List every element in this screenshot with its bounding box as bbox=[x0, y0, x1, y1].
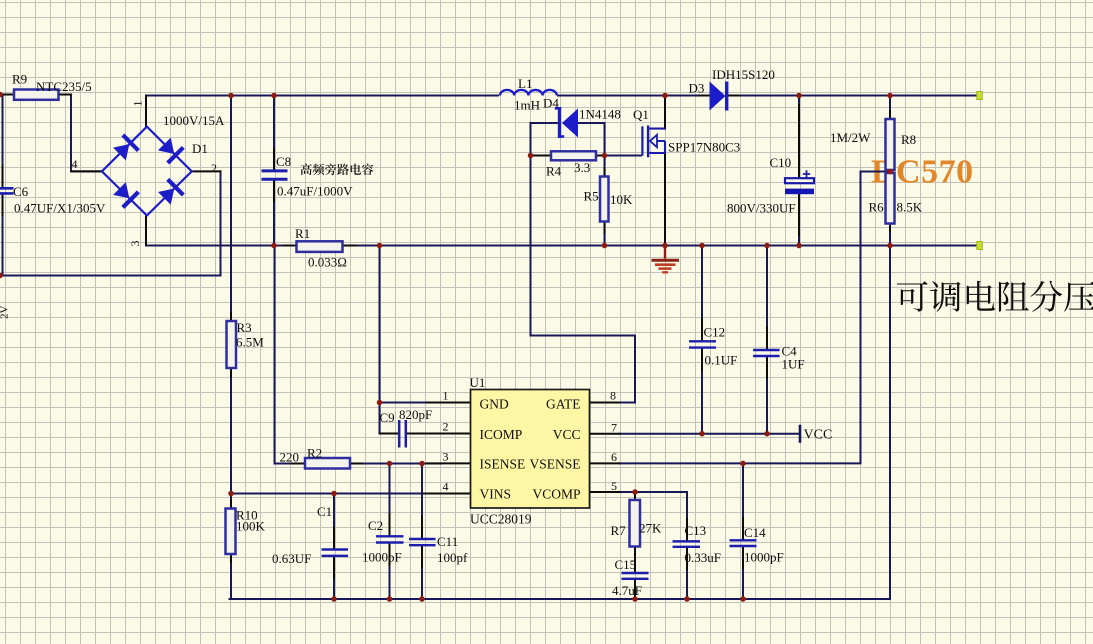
svg-text:IDH15S120: IDH15S120 bbox=[712, 67, 775, 82]
svg-text:100K: 100K bbox=[236, 519, 266, 534]
bridge diode top-left bbox=[113, 135, 138, 160]
wire R8 top feed bbox=[889, 96, 891, 120]
svg-text:R2: R2 bbox=[307, 446, 322, 461]
svg-text:NTC235/5: NTC235/5 bbox=[36, 79, 92, 94]
svg-text:VCOMP: VCOMP bbox=[532, 486, 580, 501]
svg-text:D4: D4 bbox=[543, 96, 559, 111]
svg-text:VCC: VCC bbox=[804, 428, 833, 443]
capacitor pin stubs (black) bbox=[273, 149, 275, 171]
svg-text:8.5K: 8.5K bbox=[897, 200, 923, 215]
svg-text:R7: R7 bbox=[611, 523, 627, 538]
svg-text:1UF: 1UF bbox=[782, 357, 805, 372]
svg-text:GND: GND bbox=[480, 397, 509, 412]
resistor R2 pins bbox=[292, 463, 305, 465]
wire AC live drop to C6 top bbox=[2, 95, 4, 189]
svg-text:ICOMP: ICOMP bbox=[480, 427, 523, 442]
svg-text:800V/330UF: 800V/330UF bbox=[727, 201, 796, 216]
svg-text:3: 3 bbox=[128, 241, 142, 247]
wire D4 cathode loop and gate drive to pin 8 bbox=[531, 123, 636, 403]
bridge pin 3 bbox=[145, 216, 147, 246]
diode D3 IDH15S120 bbox=[710, 82, 729, 111]
wire pin1 GND net bbox=[380, 402, 442, 404]
svg-text:3.3: 3.3 bbox=[574, 160, 590, 175]
svg-text:D1: D1 bbox=[192, 141, 208, 156]
svg-text:0.63UF: 0.63UF bbox=[272, 551, 311, 566]
svg-text:C15: C15 bbox=[615, 557, 637, 572]
resistor R3 6.5M bbox=[227, 321, 237, 368]
svg-text:1: 1 bbox=[131, 101, 145, 107]
svg-text:ISENSE: ISENSE bbox=[480, 457, 526, 472]
wire C6 bottom to neutral return bbox=[2, 194, 4, 276]
wire top rail segment right (D3 to output port) bbox=[727, 95, 977, 97]
C9 pin stubs bbox=[380, 433, 398, 435]
resistor R9 (NTC235/5) bbox=[14, 90, 59, 100]
wire C4 branch bbox=[766, 246, 768, 349]
svg-text:VSENSE: VSENSE bbox=[529, 457, 580, 472]
svg-text:0.033Ω: 0.033Ω bbox=[308, 255, 347, 270]
bridge pin 1 bbox=[145, 96, 147, 127]
resistor R9 pins bbox=[0, 94, 14, 96]
note text (HF bypass capacitor) bbox=[301, 164, 374, 176]
wire C11 branch bbox=[421, 464, 423, 538]
svg-text:Q1: Q1 bbox=[633, 107, 649, 122]
capacitor C8 0.47uF/1000V bbox=[262, 171, 288, 179]
wire R3 bottom to VINS node bbox=[230, 368, 232, 494]
wire C13 bottom bbox=[686, 548, 688, 599]
svg-text:1: 1 bbox=[443, 389, 449, 403]
diode D3 pin stubs (black) bbox=[699, 95, 710, 97]
Q1 source lead black to ground rail bbox=[664, 153, 666, 246]
wire D4 anode to R4 right node bbox=[578, 123, 605, 156]
wire rail2 down to R2 (ISENSE feed) bbox=[275, 246, 297, 464]
wire C14 branch bbox=[742, 463, 744, 538]
inductor L1 1mH bbox=[500, 90, 557, 96]
wire R1 right branch down to GND pin / ICOMP bbox=[379, 246, 381, 434]
svg-text:0.47uF/1000V: 0.47uF/1000V bbox=[277, 184, 353, 199]
svg-text:2: 2 bbox=[443, 420, 449, 434]
wire R7 bottom to C15 bbox=[634, 547, 636, 572]
wire VCC rail from pin 7 bbox=[620, 433, 801, 435]
resistor R10 100K bbox=[226, 509, 236, 555]
svg-text:R3: R3 bbox=[237, 320, 252, 335]
capacitor C6 0.47UF/X1/305V (clipped at left edge) bbox=[0, 188, 14, 193]
wire rail2 left (bridge pin3 to R1) bbox=[146, 245, 297, 247]
resistor R6 8.5K bbox=[886, 173, 895, 224]
svg-text:27K: 27K bbox=[639, 521, 662, 536]
ground symbol (power earth) bbox=[652, 246, 680, 273]
svg-text:R6: R6 bbox=[869, 200, 885, 215]
svg-text:7: 7 bbox=[611, 421, 617, 435]
wire R10 branch bbox=[230, 494, 232, 509]
svg-text:1000pF: 1000pF bbox=[744, 550, 784, 565]
svg-text:R4: R4 bbox=[546, 164, 562, 179]
svg-text:1000pF: 1000pF bbox=[362, 550, 402, 565]
resistor R4 pins bbox=[531, 155, 552, 157]
wire C15 bottom bbox=[634, 580, 636, 599]
svg-text:VINS: VINS bbox=[480, 486, 512, 501]
capacitor C4 1UF bbox=[753, 350, 780, 356]
capacitor C15 4.7uF bbox=[622, 573, 649, 579]
resistor R5 10K bbox=[600, 177, 609, 222]
svg-text:0.47UF/X1/305V: 0.47UF/X1/305V bbox=[14, 201, 106, 216]
wire VCOMP pin 5 net bbox=[620, 492, 688, 540]
resistor R2 220 bbox=[305, 458, 350, 469]
svg-text:R1: R1 bbox=[295, 226, 310, 241]
svg-text:100pf: 100pf bbox=[437, 550, 468, 565]
bridge pin 2 bbox=[192, 170, 221, 172]
capacitor C10 800V/330UF electrolytic bbox=[785, 170, 814, 194]
resistor vertical pin stubs (black) bbox=[230, 313, 232, 321]
svg-text:1000V/15A: 1000V/15A bbox=[163, 113, 225, 128]
wire top rail segment middle (L1 to D3) bbox=[558, 95, 710, 97]
capacitor C12 0.1UF bbox=[689, 341, 716, 347]
wire R4 node to R5 top bbox=[604, 156, 606, 177]
svg-text:2: 2 bbox=[211, 161, 217, 175]
svg-text:10K: 10K bbox=[610, 192, 633, 207]
bridge rectifier D1 diamond bbox=[102, 127, 192, 216]
wire C2 branch bbox=[389, 464, 391, 535]
capacitor C1 0.63UF bbox=[322, 550, 349, 556]
capacitor C11 100pf bbox=[409, 539, 436, 545]
wire top rail segment left (bridge pin1 to L1) bbox=[146, 95, 498, 97]
wire R7 branch from pin5 net bbox=[634, 492, 636, 500]
note text (adjustable resistor divider) bbox=[897, 281, 1093, 312]
svg-text:6.5M: 6.5M bbox=[236, 335, 264, 350]
svg-text:220: 220 bbox=[280, 450, 300, 465]
svg-text:R8: R8 bbox=[901, 132, 916, 147]
VCC net tick bbox=[799, 426, 802, 442]
svg-text:R5: R5 bbox=[584, 189, 599, 204]
bridge diode bottom-right bbox=[158, 179, 183, 204]
svg-text:D3: D3 bbox=[689, 81, 705, 96]
svg-text:R9: R9 bbox=[12, 72, 27, 87]
svg-text:C8: C8 bbox=[276, 154, 291, 169]
wire R2 right to ISENSE pin 3 bbox=[350, 463, 441, 465]
svg-text:C11: C11 bbox=[437, 534, 458, 549]
bridge pin 4 bbox=[72, 170, 102, 172]
wire C10 branch bbox=[798, 96, 800, 179]
Q1 drain lead black bbox=[664, 96, 666, 129]
capacitor C2 1000pF bbox=[376, 536, 404, 542]
op-amp U1 UCC28019 PFC controller IC body bbox=[471, 390, 590, 509]
svg-text:C14: C14 bbox=[744, 525, 766, 540]
resistor R1 pins bbox=[284, 245, 297, 247]
svg-text:4: 4 bbox=[443, 480, 449, 494]
svg-text:C10: C10 bbox=[770, 155, 792, 170]
svg-text:2V: 2V bbox=[0, 306, 11, 320]
svg-text:VCC: VCC bbox=[553, 427, 581, 442]
svg-text:4.7uF: 4.7uF bbox=[612, 583, 642, 598]
resistor R4 3.3 bbox=[551, 151, 596, 160]
wire rail2 right (R1 to lower port) bbox=[343, 245, 978, 247]
wire divider tap to VSENSE (pin 6) bbox=[620, 172, 891, 464]
wire VINS pin 4 net bbox=[231, 493, 441, 495]
svg-text:5: 5 bbox=[611, 479, 617, 493]
capacitor C14 1000pF bbox=[730, 540, 757, 546]
svg-text:GATE: GATE bbox=[546, 397, 581, 412]
svg-text:C13: C13 bbox=[685, 523, 707, 538]
svg-text:C2: C2 bbox=[368, 518, 383, 533]
svg-text:UCC28019: UCC28019 bbox=[470, 512, 532, 527]
svg-text:C9: C9 bbox=[380, 410, 395, 425]
resistor R1 0.033ohm bbox=[297, 241, 343, 252]
bridge diode top-right bbox=[158, 138, 183, 163]
wire C8 branch bbox=[273, 96, 275, 170]
wire gate node to Q1 gate bbox=[605, 155, 642, 157]
svg-text:L1: L1 bbox=[518, 76, 532, 91]
svg-text:U1: U1 bbox=[470, 375, 486, 390]
svg-text:0.1UF: 0.1UF bbox=[705, 353, 738, 368]
svg-text:4: 4 bbox=[72, 157, 78, 171]
wire C1 branch bbox=[333, 494, 335, 549]
bridge diode bottom-left bbox=[113, 182, 138, 207]
transistor Q1 SPP17N80C3 N-MOSFET bbox=[641, 126, 665, 158]
wire return rail right drop to bottom rail bbox=[889, 246, 891, 600]
svg-text:1M/2W: 1M/2W bbox=[830, 130, 871, 145]
IC U1 right pins 8-5 bbox=[590, 402, 620, 404]
svg-text:8: 8 bbox=[610, 389, 616, 403]
output port bottom (DC-) bbox=[977, 242, 982, 250]
resistor R7 27K bbox=[630, 500, 641, 547]
wire R5 bottom to rail2 bbox=[604, 222, 606, 246]
svg-text:C12: C12 bbox=[704, 325, 726, 340]
resistor R8 1M/2W bbox=[886, 119, 895, 170]
svg-text:0.33uF: 0.33uF bbox=[685, 550, 721, 565]
svg-text:1N4148: 1N4148 bbox=[579, 107, 621, 122]
svg-text:1mH: 1mH bbox=[514, 98, 540, 113]
output port top (DC+) bbox=[977, 92, 982, 100]
wire R6 bottom to rail2 bbox=[889, 224, 891, 246]
wire bridge pin 2 return loop bbox=[0, 171, 221, 275]
IC U1 left pins 1-4 bbox=[427, 402, 471, 404]
wire bottom ground rail bbox=[230, 598, 891, 600]
svg-text:C6: C6 bbox=[13, 184, 29, 199]
svg-text:6: 6 bbox=[611, 450, 617, 464]
wire R3 branch from top rail bbox=[230, 96, 232, 322]
diode D4 1N4148 bbox=[555, 107, 578, 138]
svg-text:820pF: 820pF bbox=[399, 407, 432, 422]
wire R9 to bridge pin 4 bbox=[58, 95, 101, 172]
capacitor C13 0.33uF bbox=[673, 541, 701, 547]
wire C12 branch bbox=[701, 246, 703, 340]
svg-text:3: 3 bbox=[443, 450, 449, 464]
svg-text:SPP17N80C3: SPP17N80C3 bbox=[668, 140, 740, 155]
capacitor C9 820pF (vertical plates) bbox=[399, 420, 406, 448]
svg-text:C1: C1 bbox=[317, 504, 332, 519]
